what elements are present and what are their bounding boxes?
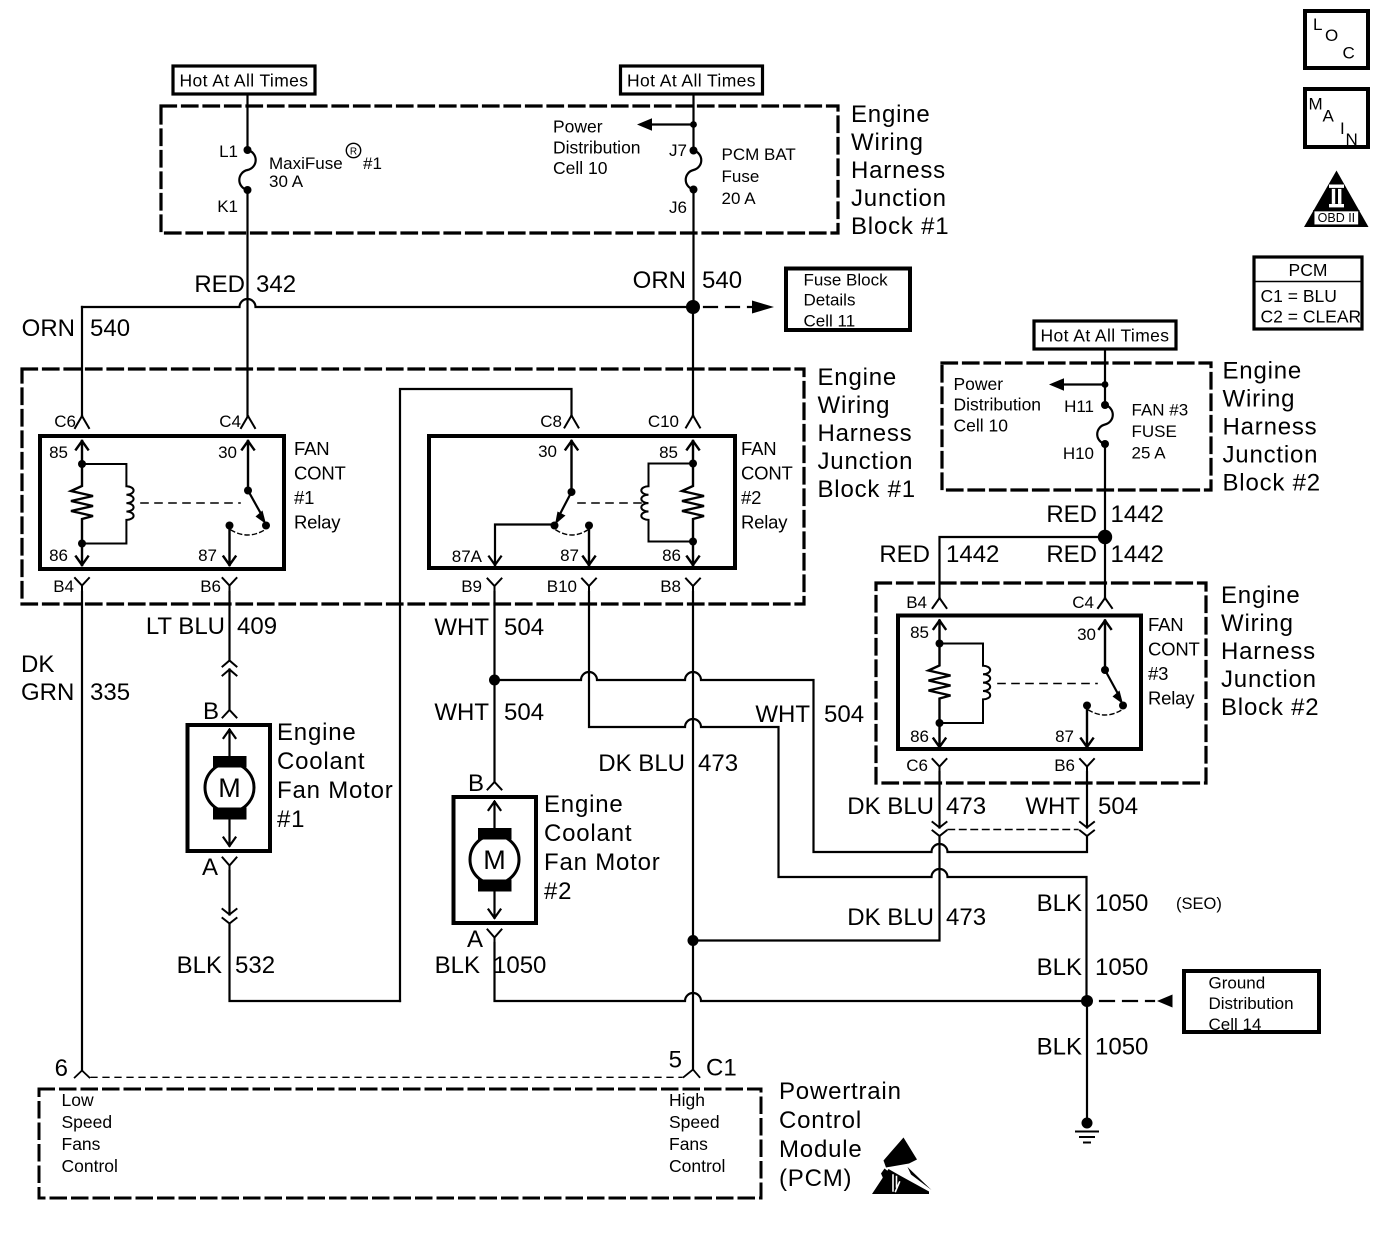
svg-text:Cell 10: Cell 10: [954, 415, 1009, 435]
inline connector (double chevron, WHT 504): [1080, 822, 1094, 836]
svg-text:GRN: GRN: [21, 679, 74, 706]
svg-text:Wiring: Wiring: [818, 392, 891, 419]
relay U1 FAN CONT #1: [40, 412, 346, 596]
connector C6 (relay 3): [906, 756, 946, 775]
svg-text:C6: C6: [906, 756, 928, 775]
svg-text:Power: Power: [553, 117, 603, 137]
svg-text:30 A: 30 A: [269, 172, 304, 191]
connector B4 (relay 3): [906, 593, 946, 612]
reference box Ground Distribution Cell 14: [1184, 971, 1319, 1034]
power label Hot At All Times (middle): [621, 66, 763, 94]
svg-text:335: 335: [90, 679, 130, 706]
svg-text:Low: Low: [62, 1090, 94, 1110]
svg-text:MaxiFuse: MaxiFuse: [269, 154, 343, 173]
svg-text:BLK: BLK: [435, 952, 480, 979]
svg-text:I: I: [1340, 119, 1345, 138]
svg-text:342: 342: [256, 271, 296, 298]
switch contacts and swing arc (relay 3): [1083, 702, 1127, 716]
arrow to Power Distribution Cell 10 (right): [1049, 378, 1108, 391]
icon LOC: [1305, 11, 1368, 68]
svg-text:1050: 1050: [1095, 890, 1148, 917]
connector C4: [219, 412, 255, 431]
svg-text:25 A: 25 A: [1132, 444, 1167, 463]
wire DK BLU 473 (relay2 B8 to PCM pin 5): [692, 592, 694, 1070]
label WHT 504 (right branch): [755, 701, 864, 728]
switch contacts and swing arc (relay 2): [551, 522, 594, 536]
svg-text:Relay: Relay: [741, 512, 788, 533]
connector C6: [54, 412, 89, 431]
svg-text:Speed: Speed: [62, 1112, 113, 1132]
pin 87 (relay 2): [560, 528, 595, 565]
svg-text:#2: #2: [741, 487, 761, 508]
svg-text:1442: 1442: [946, 541, 999, 568]
junction block #2 dashed box (FAN #3 fuse): [942, 363, 1211, 490]
label BLK 1050 (motor 2): [435, 952, 547, 979]
svg-text:M: M: [1309, 95, 1323, 114]
svg-text:B6: B6: [1054, 756, 1075, 775]
connector B6: [200, 577, 236, 596]
svg-text:Fuse: Fuse: [722, 167, 760, 186]
svg-text:ORN: ORN: [22, 315, 75, 342]
pin 87: [198, 528, 235, 565]
svg-text:R: R: [350, 147, 357, 158]
svg-text:(SEO): (SEO): [1176, 895, 1222, 913]
svg-text:WHT: WHT: [1025, 793, 1080, 820]
svg-text:C1: C1: [706, 1055, 737, 1082]
pin 86 (relay 2): [662, 538, 699, 566]
arrow to Power Distribution Cell 10 (top): [637, 118, 697, 131]
svg-text:DK BLU: DK BLU: [598, 750, 685, 777]
svg-text:CONT: CONT: [1148, 639, 1200, 660]
pin 86 (relay 3): [910, 719, 945, 747]
svg-text:85: 85: [659, 443, 678, 462]
svg-text:Fuse Block: Fuse Block: [804, 271, 889, 290]
svg-text:PCM BAT: PCM BAT: [722, 145, 796, 164]
svg-text:WHT: WHT: [434, 699, 489, 726]
connector B9: [461, 577, 501, 596]
svg-text:86: 86: [662, 546, 681, 565]
svg-text:Junction: Junction: [1223, 442, 1319, 469]
svg-text:Wiring: Wiring: [1223, 386, 1296, 413]
svg-text:FAN: FAN: [1148, 614, 1183, 635]
svg-text:J7: J7: [669, 141, 687, 160]
svg-text:540: 540: [90, 315, 130, 342]
svg-text:A: A: [202, 854, 218, 881]
label RED 1442 (lower right): [1046, 541, 1164, 568]
svg-text:87: 87: [198, 546, 217, 565]
relay FAN CONT #2: [429, 412, 793, 596]
svg-text:M: M: [483, 845, 506, 875]
svg-text:RED: RED: [879, 541, 930, 568]
svg-text:87: 87: [1055, 727, 1074, 746]
connector B4: [53, 577, 89, 596]
wire from BLK 532 up to relay2 pin 30 (C8): [400, 389, 572, 1001]
svg-text:C2 = CLEAR: C2 = CLEAR: [1261, 307, 1362, 327]
svg-text:DK BLU: DK BLU: [847, 904, 934, 931]
svg-text:B: B: [468, 770, 484, 797]
svg-text:Powertrain: Powertrain: [779, 1078, 902, 1105]
svg-text:Junction: Junction: [851, 185, 947, 212]
wire DK BLU 473 (relay3 C6 down to DK BLU junction): [693, 772, 940, 941]
label Engine Wiring Harness Junction Block #1 (top right of box): [851, 101, 949, 240]
svg-text:O: O: [1325, 26, 1338, 45]
svg-text:FAN #3: FAN #3: [1132, 401, 1189, 420]
svg-text:473: 473: [946, 904, 986, 931]
connector A (motor 2): [467, 926, 502, 953]
svg-text:Harness: Harness: [1221, 638, 1316, 665]
svg-text:504: 504: [1098, 793, 1138, 820]
svg-text:30: 30: [1077, 625, 1096, 644]
wire WHT 504 (relay2 B9 to motor2 B): [493, 592, 495, 782]
ESD sensitivity symbol: [872, 1138, 932, 1195]
svg-text:Fans: Fans: [669, 1134, 708, 1154]
svg-text:C1 = BLU: C1 = BLU: [1261, 286, 1337, 306]
wire BLK 532 (motor1 A to x400 riser): [230, 871, 401, 1001]
svg-text:ORN: ORN: [633, 267, 686, 294]
module PCM dashed box: [39, 1089, 761, 1198]
label BLK 532: [177, 952, 275, 979]
svg-text:CONT: CONT: [294, 463, 346, 484]
svg-text:1050: 1050: [1095, 954, 1148, 981]
inline connector (double chevron, LT BLU): [223, 661, 237, 676]
svg-text:B8: B8: [660, 577, 681, 596]
svg-text:1442: 1442: [1111, 541, 1164, 568]
svg-text:Cell 11: Cell 11: [804, 311, 856, 330]
svg-text:1050: 1050: [493, 952, 546, 979]
svg-text:PCM: PCM: [1289, 260, 1328, 280]
svg-text:Details: Details: [804, 291, 856, 310]
label Low Speed Fans Control: [62, 1090, 118, 1176]
resistor (relay 2): [682, 464, 704, 542]
label BLK 1050 (above ground junction): [1037, 954, 1149, 981]
svg-text:A: A: [1323, 107, 1335, 126]
label Engine Coolant Fan Motor #1: [277, 719, 394, 833]
svg-text:1050: 1050: [1095, 1034, 1148, 1061]
svg-text:20 A: 20 A: [722, 189, 757, 208]
svg-text:#2: #2: [544, 878, 572, 905]
svg-text:BLK: BLK: [1037, 1034, 1082, 1061]
pin 87A: [452, 525, 555, 567]
svg-text:473: 473: [946, 793, 986, 820]
resistor (relay 1 coil suppressor): [71, 464, 93, 544]
svg-text:K1: K1: [217, 197, 238, 216]
label FAN CONT #3 Relay: [1148, 614, 1200, 709]
label Engine Wiring Harness Junction Block #2 (upper): [1223, 358, 1321, 497]
svg-text:Harness: Harness: [851, 157, 946, 184]
connector pin 6 (PCM): [55, 1055, 90, 1082]
svg-text:504: 504: [824, 701, 864, 728]
svg-text:Control: Control: [62, 1156, 118, 1176]
dashed link between inline connectors: [948, 829, 1078, 831]
svg-text:(PCM): (PCM): [779, 1165, 852, 1192]
icon MAIN: [1305, 89, 1368, 149]
svg-text:6: 6: [55, 1055, 68, 1082]
label RED 342: [194, 271, 296, 298]
svg-text:409: 409: [237, 613, 277, 640]
svg-text:Distribution: Distribution: [553, 137, 641, 157]
reference box Fuse Block Details Cell 11: [786, 269, 910, 331]
svg-text:RED: RED: [1046, 501, 1097, 528]
pin 30 and switch arm (relay 2): [538, 441, 577, 525]
svg-text:B6: B6: [200, 577, 221, 596]
svg-text:86: 86: [49, 546, 68, 565]
legend box PCM connectors: [1254, 257, 1362, 329]
svg-text:85: 85: [910, 623, 929, 642]
svg-text:FAN: FAN: [741, 438, 776, 459]
label BLK 1050 (SEO): [1037, 890, 1222, 917]
svg-text:Control: Control: [669, 1156, 725, 1176]
svg-text:RED: RED: [194, 271, 245, 298]
resistor (relay 3): [929, 644, 951, 724]
svg-text:5: 5: [669, 1047, 682, 1074]
label ORN 540 (at junction): [633, 267, 742, 294]
connector C10: [648, 412, 700, 431]
icon OBD II: [1304, 171, 1369, 228]
svg-text:Engine: Engine: [544, 791, 624, 818]
svg-text:A: A: [467, 926, 483, 953]
svg-text:#3: #3: [1148, 663, 1168, 684]
svg-text:OBD II: OBD II: [1318, 211, 1356, 225]
svg-text:Engine: Engine: [851, 101, 931, 128]
label DK BLU 473 (junction branch): [847, 904, 986, 931]
coil (relay 3): [940, 644, 991, 724]
wire from Hot At All Times (right) to H11: [1104, 349, 1106, 405]
junction block #2 dashed box (relay 3): [876, 583, 1206, 783]
switch contacts and swing arc: [226, 522, 271, 536]
wire BLK 1050 (motor2 A to ground junction): [495, 943, 1088, 1001]
power label Hot At All Times (right): [1034, 321, 1176, 349]
dashed actuation line (relay 3): [998, 683, 1097, 685]
svg-text:B4: B4: [906, 593, 927, 612]
wire ORN 540 (J6 down to junction): [692, 190, 694, 308]
svg-text:87: 87: [560, 546, 579, 565]
svg-text:Engine: Engine: [818, 364, 898, 391]
connector B8: [660, 577, 700, 596]
label High Speed Fans Control: [669, 1090, 725, 1176]
svg-text:CONT: CONT: [741, 463, 793, 484]
wire WHT 504 (relay3 B6 down): [1086, 772, 1088, 828]
svg-text:Hot At All Times: Hot At All Times: [1041, 326, 1170, 346]
svg-text:Harness: Harness: [1223, 414, 1318, 441]
inline connector (double chevron, DK BLU 473): [933, 822, 947, 836]
coil (relay 1): [82, 464, 134, 544]
pin 85: [49, 441, 88, 468]
svg-text:H10: H10: [1063, 444, 1094, 463]
svg-text:DK: DK: [21, 651, 54, 678]
svg-text:Engine: Engine: [1221, 582, 1301, 609]
label FAN CONT #1 Relay: [294, 438, 346, 533]
label WHT 504 (upper): [434, 614, 544, 641]
svg-text:J6: J6: [669, 198, 687, 217]
svg-text:Coolant: Coolant: [544, 820, 632, 847]
svg-text:WHT: WHT: [434, 614, 489, 641]
svg-text:BLK: BLK: [1037, 890, 1082, 917]
label ORN 540 (left): [22, 315, 130, 342]
svg-text:FUSE: FUSE: [1132, 422, 1177, 441]
pin 87 (relay 3): [1055, 708, 1093, 747]
svg-text:C10: C10: [648, 412, 679, 431]
junction block #1 dashed box (top): [161, 106, 838, 233]
svg-text:Hot At All Times: Hot At All Times: [627, 71, 756, 91]
svg-text:Module: Module: [779, 1136, 863, 1163]
svg-text:30: 30: [538, 442, 557, 461]
svg-text:Block #1: Block #1: [818, 476, 916, 503]
svg-text:Block #1: Block #1: [851, 213, 949, 240]
label BLK 1050 (to ground): [1037, 1034, 1149, 1061]
svg-text:504: 504: [504, 614, 544, 641]
svg-text:Wiring: Wiring: [1221, 610, 1294, 637]
svg-text:FAN: FAN: [294, 438, 329, 459]
label RED 1442 (upper): [1046, 501, 1164, 528]
svg-text:Fans: Fans: [62, 1134, 101, 1154]
connector B (motor 2): [468, 770, 502, 797]
svg-text:Block #2: Block #2: [1223, 470, 1321, 497]
label WHT 504 (below relay3): [1025, 793, 1138, 820]
svg-text:1442: 1442: [1111, 501, 1164, 528]
svg-text:#1: #1: [294, 487, 314, 508]
wire LT BLU 409 (relay1 B6 to motor1 B): [228, 592, 230, 710]
svg-text:Engine: Engine: [1223, 358, 1303, 385]
label Engine Wiring Harness Junction Block #2 (lower): [1221, 582, 1319, 721]
dashed actuation line (relay 2): [578, 502, 643, 504]
svg-text:H11: H11: [1064, 397, 1094, 416]
connector A (motor 1): [202, 854, 237, 881]
svg-text:High: High: [669, 1090, 705, 1110]
svg-text:B9: B9: [461, 577, 482, 596]
svg-text:Relay: Relay: [294, 512, 341, 533]
connector B (motor 1): [203, 698, 237, 725]
fuse MaxiFuse #1 30 A: [217, 142, 382, 216]
svg-text:Relay: Relay: [1148, 688, 1195, 709]
relay FAN CONT #3: [898, 593, 1200, 775]
wire BLK 1050 to ground: [1086, 1001, 1088, 1123]
svg-text:C4: C4: [1072, 593, 1094, 612]
fuse FAN #3 FUSE 25 A: [1063, 397, 1188, 463]
pin 85 (relay 3): [910, 621, 945, 648]
fuse PCM BAT Fuse 20 A: [669, 141, 796, 217]
svg-text:Fan Motor: Fan Motor: [277, 777, 394, 804]
svg-text:473: 473: [698, 750, 738, 777]
pin 86: [49, 540, 88, 566]
wire from Hot At All Times (middle) to J7: [692, 94, 694, 151]
svg-text:B4: B4: [53, 577, 74, 596]
svg-text:N: N: [1346, 130, 1358, 149]
wire RED 1442 (junction to relay3 C4): [1104, 537, 1106, 598]
dashed connector face line (PCM C1): [91, 1076, 682, 1078]
svg-text:504: 504: [504, 699, 544, 726]
wire RED 1442 (H10 down to junction): [1104, 444, 1106, 537]
wire RED 342 (K1 to relay1 C4): [246, 190, 248, 416]
label DK GRN 335: [21, 651, 130, 706]
pin 30 and switch arm: [218, 441, 266, 524]
label LT BLU 409: [146, 613, 277, 640]
svg-text:Cell 14: Cell 14: [1209, 1015, 1262, 1034]
svg-text:Ground: Ground: [1209, 973, 1266, 992]
label Engine Coolant Fan Motor #2: [544, 791, 661, 905]
svg-text:532: 532: [235, 952, 275, 979]
svg-text:BLK: BLK: [177, 952, 222, 979]
pin 85 (relay 2): [659, 441, 699, 468]
svg-text:Hot At All Times: Hot At All Times: [180, 71, 309, 91]
svg-text:C: C: [1343, 44, 1355, 63]
motor M1 Engine Coolant Fan Motor #1: [188, 725, 271, 851]
svg-text:Junction: Junction: [1221, 666, 1317, 693]
wire ORN 540 left vertical to relay1 C6: [81, 307, 83, 416]
wire ORN 540 to relay2 C10: [692, 307, 694, 416]
svg-text:Control: Control: [779, 1107, 862, 1134]
dashed actuation line (relay 1): [141, 502, 240, 504]
wire from Hot At All Times (left) to L1: [246, 94, 248, 150]
label Power Distribution Cell 10 (top): [553, 117, 641, 178]
power label Hot At All Times (left): [173, 66, 315, 94]
svg-text:540: 540: [702, 267, 742, 294]
svg-text:85: 85: [49, 443, 68, 462]
svg-text:Power: Power: [954, 374, 1004, 394]
svg-text:Speed: Speed: [669, 1112, 720, 1132]
wire RED 1442 branch to relay3 B4: [940, 537, 1106, 598]
svg-text:Harness: Harness: [818, 420, 913, 447]
svg-text:Junction: Junction: [818, 448, 914, 475]
svg-text:Fan Motor: Fan Motor: [544, 849, 661, 876]
svg-text:C4: C4: [219, 412, 241, 431]
svg-text:B: B: [203, 698, 219, 725]
junction block #1 dashed box (relays 1 and 2): [22, 369, 804, 604]
svg-text:Distribution: Distribution: [1209, 994, 1294, 1013]
svg-text:BLK: BLK: [1037, 954, 1082, 981]
svg-text:B10: B10: [547, 577, 577, 596]
inline connector (double chevron, BLK 532): [223, 909, 237, 924]
wire DK GRN 335 (relay1 B4 to PCM pin 6): [81, 592, 83, 1071]
wire from relay2 B10 (87) to ground junction: [589, 592, 1087, 1001]
node WHT junction: [489, 675, 500, 686]
connector pin 5 C1 (PCM): [669, 1047, 737, 1082]
pin 30 and switch arm (relay 3): [1077, 621, 1123, 705]
wire ORN 540 horizontal with hop over RED wire: [82, 299, 693, 307]
label RED 1442 (lower left): [879, 541, 999, 568]
label Powertrain Control Module (PCM): [779, 1078, 902, 1192]
dashed arrow to Fuse Block Details Cell 11: [704, 301, 774, 314]
svg-text:C6: C6: [54, 412, 76, 431]
svg-text:86: 86: [910, 727, 929, 746]
wire WHT 504 branch (junction right, down, to relay3 B6 wire): [495, 672, 1088, 852]
svg-text:Coolant: Coolant: [277, 748, 365, 775]
coil (relay 2): [641, 464, 693, 542]
svg-text:30: 30: [218, 443, 237, 462]
label FAN CONT #2 Relay: [741, 438, 793, 533]
connector B6 (relay 3): [1054, 756, 1094, 775]
label Power Distribution Cell 10 (right): [954, 374, 1042, 435]
node DK BLU junction: [688, 935, 699, 946]
label Engine Wiring Harness Junction Block #1 (right of relay box): [818, 364, 916, 503]
svg-text:Block #2: Block #2: [1221, 694, 1319, 721]
ground G101: [1076, 1118, 1098, 1143]
svg-text:Distribution: Distribution: [954, 395, 1042, 415]
svg-text:DK BLU: DK BLU: [847, 793, 934, 820]
svg-text:RED: RED: [1046, 541, 1097, 568]
dashed arrow to Ground Distribution Cell 14: [1100, 995, 1173, 1008]
node ORN junction: [686, 300, 700, 314]
node RED 1442 junction: [1098, 530, 1112, 544]
svg-text:L1: L1: [219, 142, 238, 161]
label DK BLU 473 (mid): [598, 750, 738, 777]
svg-text:C8: C8: [540, 412, 562, 431]
connector C8: [540, 412, 578, 431]
svg-text:WHT: WHT: [755, 701, 810, 728]
motor M2 Engine Coolant Fan Motor #2: [454, 797, 537, 923]
svg-text:L: L: [1313, 15, 1322, 34]
label DK BLU 473 (below relay3): [847, 793, 986, 820]
svg-text:#1: #1: [363, 154, 382, 173]
